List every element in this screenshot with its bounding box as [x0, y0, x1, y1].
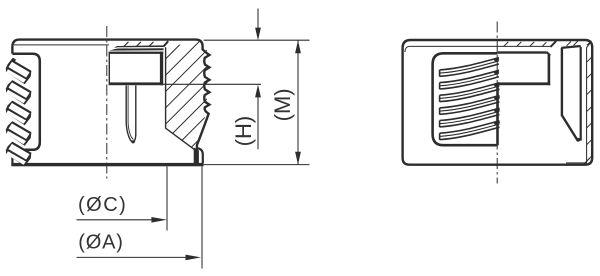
svg-text:(ØA): (ØA) — [78, 231, 123, 253]
svg-text:(H): (H) — [231, 116, 256, 147]
svg-text:(M): (M) — [270, 88, 295, 121]
svg-text:(ØC): (ØC) — [78, 194, 127, 216]
